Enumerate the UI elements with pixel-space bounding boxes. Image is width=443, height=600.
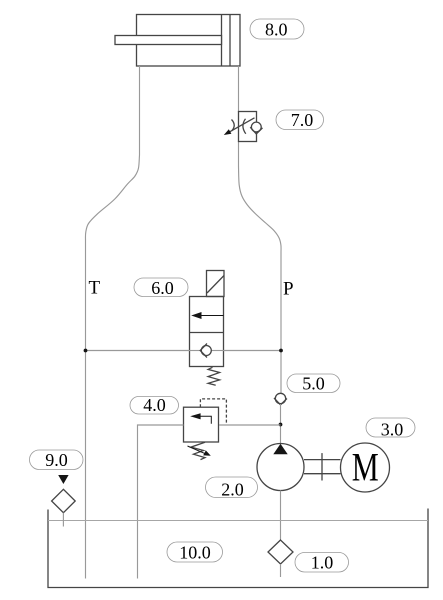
svg-text:8.0: 8.0 (265, 20, 288, 40)
throttle 7.0 arrow head (224, 129, 232, 135)
valve 6.0 upper arrow (191, 312, 223, 319)
wire filter to tank (280, 564, 282, 577)
pump 2.0 (257, 444, 304, 491)
valve 6.0 spring (208, 367, 220, 385)
label capsule 10.0 (167, 542, 223, 563)
label capsule 8.0 (250, 19, 304, 40)
wire T vertical line (85, 240, 87, 351)
svg-text:3.0: 3.0 (381, 420, 404, 440)
label capsule 1.0 (295, 552, 349, 572)
wire left port down from cylinder (139, 66, 141, 155)
label capsule 3.0 (366, 418, 415, 440)
label capsule 5.0 (287, 374, 340, 394)
junction T (84, 349, 88, 353)
filter 1.0 (268, 540, 293, 564)
label capsule 4.0 (130, 395, 179, 415)
cylinder 8.0 body (137, 15, 241, 67)
wire from T line to valve 6.0 (86, 350, 190, 352)
breather 9.0 triangle (58, 475, 68, 484)
wire inside valve 6.0 right of ball (211, 350, 223, 352)
wire inside valve 6.0 left of ball (189, 350, 200, 352)
tank 10.0 (48, 509, 428, 588)
wire right line below valve 7.0 (238, 141, 240, 166)
label capsule 7.0 (276, 110, 324, 130)
svg-text:9.0: 9.0 (45, 450, 68, 470)
junction relief tap (279, 423, 283, 427)
breather 9.0 diamond (52, 489, 76, 512)
svg-text:10.0: 10.0 (179, 543, 211, 563)
svg-text:T: T (89, 278, 101, 299)
wire relief valve right to P line (219, 424, 281, 426)
directional valve 6.0 body (190, 297, 224, 367)
check valve 5.0 (274, 393, 287, 405)
wire relief valve left to drain (138, 425, 184, 579)
relief valve 4.0 spring (191, 442, 205, 459)
wire P line below check valve (280, 404, 282, 444)
svg-text:M: M (352, 445, 379, 490)
relief valve 4.0 adjust arrow (188, 446, 211, 456)
svg-text:P: P (283, 279, 294, 300)
svg-text:4.0: 4.0 (143, 395, 166, 415)
svg-text:6.0: 6.0 (151, 278, 174, 298)
solenoid of valve 6.0 (207, 271, 225, 297)
junction P (279, 349, 283, 353)
svg-text:5.0: 5.0 (302, 374, 325, 394)
svg-text:2.0: 2.0 (221, 479, 244, 499)
relief valve 4.0 body (184, 407, 219, 442)
relief valve 4.0 arrow (190, 413, 211, 424)
label capsule 9.0 (30, 450, 84, 470)
shaft pump to motor (304, 453, 341, 480)
cylinder 8.0 rod (115, 36, 222, 45)
motor 3.0 (341, 443, 390, 492)
label capsule 2.0 (206, 477, 258, 499)
throttle check valve 7.0 (230, 112, 263, 142)
wire from valve 6.0 to P line (224, 350, 282, 352)
pump 2.0 triangle (273, 444, 287, 455)
valve 6.0 check ball (200, 344, 211, 358)
svg-text:7.0: 7.0 (291, 110, 314, 130)
wire right shoulder curve (239, 166, 282, 252)
wire right port down from cylinder (238, 66, 240, 112)
svg-text:1.0: 1.0 (311, 552, 334, 572)
breather 9.0 stem (62, 513, 64, 527)
tank fluid level line (48, 520, 428, 522)
wire T line into tank (85, 351, 87, 579)
relief valve 4.0 pilot dashed line (200, 399, 226, 425)
wire P vertical line (280, 252, 282, 393)
wire left shoulder curve (85, 155, 139, 240)
label capsule 6.0 (134, 278, 188, 298)
wire pump suction down (280, 491, 282, 541)
cylinder 8.0 piston (222, 15, 231, 67)
